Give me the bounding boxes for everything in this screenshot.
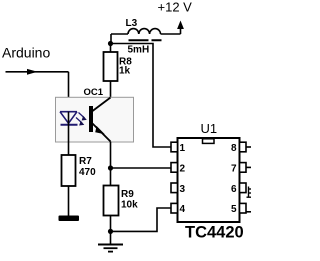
svg-text:1: 1 xyxy=(180,143,186,154)
svg-text:1k: 1k xyxy=(119,66,131,77)
svg-text:R9: R9 xyxy=(121,189,134,200)
emitter line xyxy=(93,124,111,142)
resistor R8 xyxy=(104,52,118,81)
partial component at pin 6 (cropped) xyxy=(247,187,252,198)
wire: Arduino signal horizontal xyxy=(6,71,69,73)
svg-text:5: 5 xyxy=(231,204,237,215)
wire: node right then down to U1 pin 1 xyxy=(111,44,172,148)
resistor R7 xyxy=(62,155,76,186)
svg-text:Arduino: Arduino xyxy=(2,45,50,61)
pin 3 box xyxy=(171,183,178,193)
pin 7 box xyxy=(240,163,247,173)
node: emitter / R9 / pin2 junction xyxy=(108,165,113,170)
wire: emitter down to node xyxy=(110,142,112,169)
wire: node to R9 top xyxy=(110,168,112,186)
pin 1 box xyxy=(171,142,178,152)
svg-text:7: 7 xyxy=(231,163,237,174)
collector line xyxy=(93,98,111,112)
inductor L3 xyxy=(111,33,181,35)
arrowhead on Arduino wire xyxy=(27,69,38,75)
svg-text:10k: 10k xyxy=(121,200,138,211)
svg-text:470: 470 xyxy=(79,167,96,178)
node: ground / pin4 junction xyxy=(108,229,113,234)
svg-text:8: 8 xyxy=(231,143,237,154)
svg-text:4: 4 xyxy=(180,204,186,215)
wire: LED cathode through box to R7 xyxy=(68,112,70,155)
LED of OC1 xyxy=(60,112,78,125)
wire: node right and up to U1 pin 4 xyxy=(111,208,172,231)
wire: node to R8 top xyxy=(110,44,112,53)
svg-text:L3: L3 xyxy=(126,18,138,29)
pin 5 box xyxy=(240,203,247,213)
op-amp driver U1 body (TC4420) xyxy=(178,138,240,222)
LED light arrows xyxy=(76,113,85,124)
ground bar (signal ground) xyxy=(59,216,80,222)
wire: pin 8 stub xyxy=(246,146,251,148)
wire: R8 bottom to phototransistor collector xyxy=(110,81,112,98)
optocoupler OC1 body xyxy=(56,97,134,142)
resistor R9 xyxy=(104,186,119,216)
pin 2 box xyxy=(171,163,178,173)
svg-text:6: 6 xyxy=(231,184,237,195)
emitter arrowhead xyxy=(95,126,105,134)
svg-text:OC1: OC1 xyxy=(84,87,104,98)
wire: L3 left down to node xyxy=(110,34,112,44)
svg-text:2: 2 xyxy=(180,163,186,174)
svg-text:3: 3 xyxy=(180,184,186,195)
wire: pin 7 stub xyxy=(246,166,251,168)
svg-text:5mH: 5mH xyxy=(128,45,150,56)
phototransistor of OC1 xyxy=(89,106,93,132)
wire: R7 to ground bar xyxy=(68,186,70,216)
ground symbol (earth) xyxy=(110,231,112,244)
wire: node to U1 pin 2 xyxy=(111,167,172,169)
svg-text:R7: R7 xyxy=(79,156,92,167)
svg-text:+12 V: +12 V xyxy=(158,0,193,15)
pin 4 box xyxy=(171,203,178,213)
power arrow +12V xyxy=(177,21,184,30)
pin 8 box xyxy=(240,142,247,152)
wire: down to optocoupler LED anode xyxy=(68,72,70,112)
notch mark xyxy=(203,139,215,144)
svg-text:TC4420: TC4420 xyxy=(185,224,244,242)
node: L3 / R8 / pin1 junction xyxy=(108,41,113,46)
svg-text:U1: U1 xyxy=(201,121,218,136)
pin 6 box xyxy=(240,183,247,193)
wire: R9 bottom to ground node xyxy=(110,216,112,232)
inductor core bars xyxy=(129,39,162,41)
wire: pin 5 stub xyxy=(246,211,251,213)
